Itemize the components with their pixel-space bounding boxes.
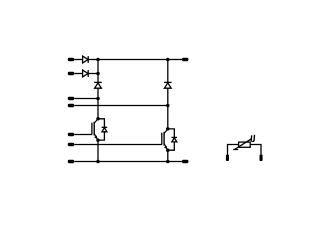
- diode D1 (row 1, pointing right): [83, 56, 89, 63]
- terminal 4 (row 4): [68, 104, 74, 107]
- label theta: [251, 135, 254, 142]
- arrow RT (variability stroke): [233, 139, 251, 150]
- diode D2 (row 2, pointing right): [83, 70, 89, 77]
- wire left branch to Q1 collector: [97, 99, 99, 119]
- node: top-left junction: [96, 58, 100, 62]
- wire left branch to row3 node: [97, 88, 99, 98]
- resistor body RT: [239, 142, 251, 147]
- transistor Q2 (IGBT): [162, 129, 168, 150]
- node: Q1 collector: [96, 117, 100, 121]
- diode D4 (right branch, pointing up): [164, 82, 172, 88]
- diode D6 (antiparallel with Q2): [168, 129, 177, 150]
- wire row1 to top node: [88, 59, 98, 61]
- wire RT right: [250, 145, 261, 155]
- terminal RT right: [260, 155, 263, 162]
- terminal RT left: [226, 155, 229, 162]
- thermistor RT (NTC): [226, 135, 263, 161]
- wire bottom bus: [74, 161, 182, 163]
- terminal 3 (row 3): [68, 97, 74, 100]
- wire gate Q2 (crosses left emitter line): [74, 144, 162, 146]
- wire gate Q1: [74, 134, 92, 136]
- wire Q2 emitter down: [167, 150, 169, 161]
- transistor Q1 (IGBT): [92, 119, 98, 140]
- terminal bottom-left: [68, 160, 74, 163]
- wire row4 (crosses left branch, joins right branch): [74, 105, 168, 107]
- wire right branch to Q2 collector: [167, 106, 169, 129]
- wire top bus: [98, 59, 168, 61]
- wire right branch to row4 node: [167, 88, 169, 105]
- node: row4 junction on right branch: [166, 104, 170, 108]
- terminal top-right: [182, 58, 188, 61]
- terminal bottom-right: [182, 160, 188, 163]
- node: Q2 emitter: [166, 148, 170, 152]
- wire row2 to left branch: [88, 73, 98, 75]
- terminal 1 (top-left, row 1): [68, 58, 74, 61]
- node: row3 junction: [96, 97, 100, 101]
- diode D5 (antiparallel with Q1): [98, 119, 107, 140]
- terminal 5 (gate Q1): [68, 133, 74, 136]
- terminal 2 (row 2): [68, 72, 74, 75]
- wire row3: [74, 98, 98, 100]
- wire RT left: [228, 145, 239, 155]
- wire right branch upper: [167, 60, 169, 83]
- wire row2 left: [74, 73, 82, 75]
- terminal 6 (gate Q2): [68, 143, 74, 146]
- node: row2 junction: [96, 72, 100, 76]
- wire Q1 emitter down: [97, 140, 99, 161]
- diode D3 (left branch, pointing up): [94, 82, 102, 88]
- node: top-right junction: [166, 58, 170, 62]
- wire left branch upper: [97, 60, 99, 83]
- wire row1 left: [74, 59, 82, 61]
- wire top-right stub: [168, 59, 182, 61]
- node: bottom-left junction: [96, 160, 100, 164]
- node: Q2 collector: [166, 127, 170, 131]
- node: Q1 emitter: [96, 138, 100, 142]
- node: bottom-right junction: [166, 160, 170, 164]
